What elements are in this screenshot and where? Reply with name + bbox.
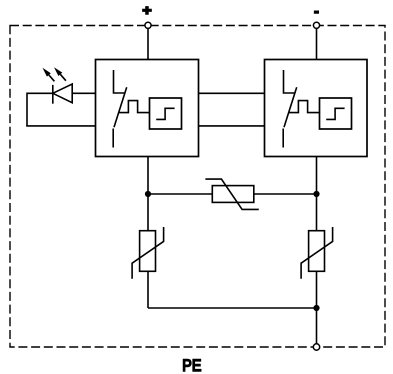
varistor RV2 (horizontal, between + and - branches) [205,179,258,209]
U1 trigger box [150,98,182,129]
wire between modules (upper) [199,92,265,94]
U1 thermal disconnector contact [113,70,127,148]
wire from + terminal to left module [147,29,149,60]
wire node A to varistor RV2 [148,193,212,195]
svg-text:PE: PE [182,357,201,374]
LED light arrow 2 [54,67,66,81]
wire varistor RV1 to PE rail [147,271,149,308]
terminal PE (open circle) [313,344,319,350]
terminal + (open circle) [145,22,151,28]
wire varistor RV2 to node B [254,193,317,195]
terminal - (open circle) [313,22,319,28]
SPD module U2 (right box) [265,60,368,157]
wire LED loop left vertical [26,93,28,126]
node B (junction dot) [313,191,319,197]
wire from - terminal to right module [316,29,318,60]
varistor RV3 (right, to PE) [301,227,333,279]
U2 trigger box [320,98,352,129]
U1 surge pulse waveform [119,101,150,113]
varistor RV1 (left, to PE) [132,227,164,279]
LED D1 (indicator diode) [53,84,72,104]
wire module U1 to node A [147,157,149,195]
U2 thermal disconnector contact [283,70,297,148]
node C (junction dot on PE rail) [313,305,319,311]
wire between modules (lower) [199,125,265,127]
wire node B down to varistor RV3 [316,194,318,231]
wire LED cathode to left loop [27,92,53,94]
LED light arrow 1 [43,68,55,82]
svg-text:-: - [314,3,319,19]
SPD module U1 (left box) [96,60,199,157]
U2 surge pulse waveform [289,101,320,113]
wire PE rail (bottom horizontal) [148,307,317,309]
svg-text:+: + [142,2,151,18]
wire LED loop bottom [26,125,95,127]
wire module U2 to node B [316,157,318,195]
wire varistor RV3 to PE terminal [316,271,318,347]
U2 trigger box step symbol [326,108,344,119]
U1 trigger box step symbol [156,108,174,119]
wire LED anode to module U1 [72,92,95,94]
node A (junction dot) [145,191,151,197]
wire node A down to varistor RV1 [147,194,149,231]
